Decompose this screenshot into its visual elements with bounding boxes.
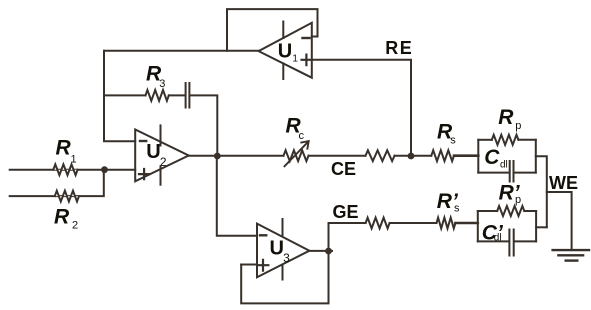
svg-text:U: U xyxy=(146,141,160,163)
svg-text:p: p xyxy=(515,194,521,206)
svg-text:1: 1 xyxy=(71,153,77,165)
svg-text:U: U xyxy=(278,41,292,63)
svg-text:R: R xyxy=(498,106,514,129)
svg-text:2: 2 xyxy=(72,219,78,231)
svg-text:s: s xyxy=(454,203,460,215)
svg-text:dl: dl xyxy=(494,233,502,244)
svg-text:R: R xyxy=(54,206,70,229)
svg-text:3: 3 xyxy=(159,78,165,90)
svg-text:dl: dl xyxy=(500,160,508,171)
svg-text:RE: RE xyxy=(385,38,413,58)
svg-text:s: s xyxy=(450,135,456,147)
svg-text:1: 1 xyxy=(292,54,298,65)
svg-text:p: p xyxy=(515,120,521,132)
svg-text:c: c xyxy=(299,130,305,142)
svg-text:WE: WE xyxy=(549,173,578,193)
svg-text:2: 2 xyxy=(160,155,167,169)
svg-text:CE: CE xyxy=(331,159,356,179)
svg-text:C: C xyxy=(484,146,500,169)
svg-text:U: U xyxy=(270,238,284,260)
svg-text:GE: GE xyxy=(333,202,359,222)
svg-text:R: R xyxy=(56,137,72,160)
svg-text:3: 3 xyxy=(283,251,290,265)
